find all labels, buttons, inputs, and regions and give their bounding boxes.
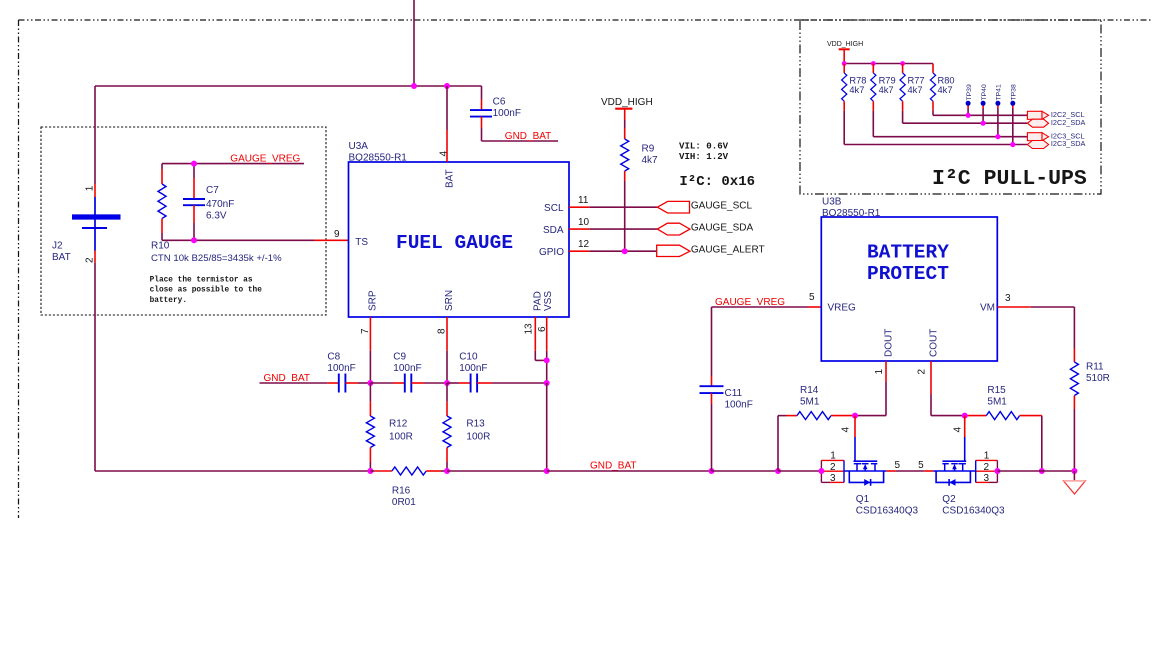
pin number 4	[438, 151, 449, 157]
wire SRP-C9	[370, 382, 404, 384]
junction	[900, 61, 905, 66]
wire rail mid	[447, 470, 547, 472]
junction	[544, 380, 550, 386]
svg-text:100R: 100R	[466, 432, 490, 443]
pin number 13	[524, 323, 535, 335]
junction	[1039, 468, 1045, 474]
wire R12 bottom	[369, 448, 371, 472]
junction	[852, 413, 858, 419]
wire I2C2_SDA row	[903, 111, 1028, 124]
svg-text:5: 5	[918, 460, 924, 471]
svg-text:R80: R80	[938, 75, 955, 85]
junction	[191, 161, 197, 167]
svg-text:C8: C8	[327, 352, 340, 363]
label C6	[493, 97, 521, 120]
svg-text:GND_BAT: GND_BAT	[505, 131, 552, 142]
pin name GPIO	[539, 247, 564, 258]
resistor R15	[986, 412, 1019, 420]
label C7	[206, 185, 234, 222]
pin name BAT	[445, 169, 456, 188]
wire C7 top stub	[193, 164, 195, 199]
label R78	[849, 75, 866, 95]
svg-text:VREG: VREG	[828, 303, 857, 314]
svg-text:C7: C7	[206, 185, 219, 196]
wire top horizontal	[95, 85, 482, 87]
svg-text:TP40: TP40	[981, 84, 988, 100]
net label GAUGE_VREG right	[715, 297, 785, 308]
label C9	[393, 352, 421, 375]
op-amp U3A box	[349, 162, 570, 317]
svg-text:TP38: TP38	[1011, 84, 1018, 100]
svg-text:FUEL GAUGE: FUEL GAUGE	[396, 232, 513, 254]
svg-text:R79: R79	[879, 75, 896, 85]
wire COUT	[931, 361, 965, 416]
svg-text:SCL: SCL	[544, 203, 564, 214]
svg-text:SRN: SRN	[444, 290, 455, 311]
wire GPIO	[569, 250, 657, 252]
pin name SRN	[444, 290, 455, 311]
svg-text:I²C: 0x16: I²C: 0x16	[679, 174, 755, 190]
net label GND_BAT mid	[264, 373, 311, 384]
svg-text:1: 1	[984, 451, 990, 462]
port I2C3_SDA	[1027, 139, 1085, 148]
pin number 4 Q2	[953, 427, 964, 433]
svg-text:2: 2	[830, 462, 836, 473]
wire R10 bottom	[161, 219, 163, 241]
wire Q2 drain	[924, 470, 933, 472]
svg-text:VM: VM	[980, 303, 995, 314]
svg-text:4k7: 4k7	[938, 85, 953, 95]
pin name SCL	[544, 203, 564, 214]
pin box Q2	[976, 451, 998, 485]
ground	[1064, 471, 1086, 494]
capacitor C7	[183, 199, 205, 205]
svg-text:R77: R77	[908, 75, 925, 85]
junction	[775, 468, 781, 474]
testpoint TP39	[966, 84, 973, 115]
pin name DOUT	[884, 329, 895, 357]
label R14	[800, 385, 820, 408]
resistor R77	[900, 73, 905, 101]
pin number 4 Q1	[841, 427, 852, 433]
wire C6 bottom	[482, 117, 559, 141]
svg-text:VSS: VSS	[543, 291, 554, 311]
capacitor C9	[405, 374, 412, 393]
svg-text:BAT: BAT	[52, 252, 71, 263]
svg-text:2: 2	[984, 462, 990, 473]
svg-text:6: 6	[537, 326, 548, 332]
svg-text:I2C2_SDA: I2C2_SDA	[1051, 118, 1086, 127]
svg-text:TP39: TP39	[966, 84, 973, 100]
battery section dashed box	[41, 127, 326, 315]
wire C9-SRN	[411, 382, 447, 384]
svg-text:5: 5	[809, 292, 815, 303]
wire SRN pin	[446, 317, 448, 383]
label R9	[642, 144, 659, 167]
svg-text:TP41: TP41	[996, 84, 1003, 100]
wire R77 top	[902, 64, 904, 73]
wire C10-VSS	[477, 382, 547, 384]
wire VM	[997, 306, 1074, 308]
wire R16 right stub	[426, 470, 447, 472]
svg-text:DOUT: DOUT	[884, 329, 895, 357]
wire R12 top	[369, 383, 371, 416]
capacitor C6	[470, 110, 492, 117]
svg-text:C10: C10	[459, 352, 478, 363]
svg-text:COUT: COUT	[929, 329, 940, 357]
wire VSS down	[546, 383, 548, 471]
wire SDA	[569, 228, 657, 230]
svg-text:PROTECT: PROTECT	[867, 263, 949, 285]
pin number 1	[874, 369, 885, 375]
svg-text:4k7: 4k7	[642, 155, 659, 166]
net label GAUGE_VREG	[230, 153, 300, 164]
wire C11 top	[711, 307, 713, 386]
wire R9 bottom	[624, 171, 626, 251]
wire R14 left	[778, 416, 797, 471]
label R11	[1086, 362, 1110, 385]
svg-text:R15: R15	[987, 385, 1006, 396]
wire battery top	[94, 86, 96, 197]
svg-text:R78: R78	[849, 75, 866, 85]
wire C8-SRP	[345, 382, 370, 384]
resistor R10	[158, 184, 166, 219]
pin name PAD	[533, 291, 544, 311]
wire top vertical	[413, 0, 415, 86]
svg-text:10: 10	[578, 217, 590, 228]
svg-text:4k7: 4k7	[879, 85, 894, 95]
wire R13 top	[446, 383, 448, 416]
wire Q2 gate stub	[964, 416, 966, 437]
wire C11 bottom	[711, 393, 713, 471]
wire I2C3_SDA row	[844, 111, 1027, 145]
title I2C PULL-UPS	[932, 167, 1087, 191]
pin name COUT	[929, 329, 940, 357]
svg-text:VIL: 0.6V: VIL: 0.6V	[679, 141, 729, 152]
pin number 5 Q1	[895, 460, 901, 471]
wire rail right	[997, 470, 1074, 472]
svg-text:J2: J2	[52, 241, 63, 252]
svg-text:510R: 510R	[1086, 373, 1110, 384]
label Q1	[856, 494, 919, 517]
svg-text:GAUGE_SDA: GAUGE_SDA	[691, 223, 754, 234]
wire I2C bus	[844, 63, 933, 65]
wire I2C2_SCL row	[933, 111, 1027, 116]
resistor R14	[797, 412, 831, 420]
label R12	[389, 419, 413, 443]
svg-text:U3B: U3B	[822, 197, 842, 208]
svg-text:R10: R10	[151, 241, 170, 252]
svg-text:2: 2	[85, 257, 96, 263]
svg-text:13: 13	[524, 323, 535, 335]
svg-text:7: 7	[360, 328, 371, 334]
svg-text:100nF: 100nF	[493, 108, 521, 119]
svg-text:C6: C6	[493, 97, 506, 108]
wire R15 right	[1020, 416, 1042, 471]
wire VSS pin	[546, 317, 548, 383]
wire R78 top	[843, 64, 845, 73]
wire I2C3_SCL row	[873, 111, 1027, 137]
label R15	[987, 385, 1007, 408]
pin name VREG	[828, 303, 857, 314]
note VIL VIH	[679, 141, 729, 163]
note I2C address	[679, 174, 755, 190]
svg-text:1: 1	[874, 369, 885, 375]
svg-text:5M1: 5M1	[987, 397, 1007, 408]
svg-text:5M1: 5M1	[800, 397, 820, 408]
pin number 8	[437, 328, 448, 334]
svg-text:0R01: 0R01	[392, 497, 416, 508]
wire PAD pin	[535, 317, 546, 360]
svg-text:BATTERY: BATTERY	[867, 242, 949, 264]
label C11	[725, 388, 753, 411]
svg-text:close as possible to the: close as possible to the	[150, 287, 263, 295]
junction	[818, 468, 824, 474]
wire R79 top	[872, 64, 874, 73]
svg-text:R14: R14	[800, 385, 819, 396]
svg-text:SRP: SRP	[368, 290, 379, 311]
testpoint TP38	[1010, 84, 1017, 144]
svg-text:2: 2	[916, 369, 927, 375]
port I2C2_SDA	[1027, 118, 1085, 127]
power VDD_HIGH I2C	[827, 41, 863, 63]
svg-text:GPIO: GPIO	[539, 247, 564, 258]
pin name SDA	[543, 225, 564, 236]
wire R80 bottom stub	[932, 101, 934, 110]
junction	[367, 468, 373, 474]
pin name SRP	[368, 290, 379, 311]
junction	[411, 83, 417, 89]
wire R80 top	[932, 64, 934, 73]
pin number 12	[578, 239, 590, 250]
svg-text:CSD16340Q3: CSD16340Q3	[942, 506, 1005, 517]
wire SCL	[569, 206, 657, 208]
svg-text:I2C3_SDA: I2C3_SDA	[1051, 139, 1086, 148]
svg-text:CSD16340Q3: CSD16340Q3	[856, 506, 919, 517]
svg-text:6.3V: 6.3V	[206, 211, 227, 222]
svg-text:Q1: Q1	[856, 494, 870, 505]
page border left	[18, 20, 20, 518]
pin number 6	[537, 326, 548, 332]
junction	[367, 380, 373, 386]
svg-text:R12: R12	[389, 419, 408, 430]
port I2C2_SCL	[1027, 110, 1084, 119]
power VDD_HIGH	[601, 97, 653, 120]
I2C pull-ups dashed box	[800, 20, 1101, 194]
resistor R80	[930, 73, 935, 101]
pin number 5 Q2	[918, 460, 924, 471]
battery pin 2	[85, 257, 96, 263]
svg-text:TS: TS	[355, 237, 368, 248]
svg-text:CTN 10k B25/85=3435k +/-1%: CTN 10k B25/85=3435k +/-1%	[151, 253, 282, 264]
testpoint TP41	[995, 84, 1002, 137]
junction	[1010, 142, 1015, 147]
wire Q1 gate stub	[854, 416, 856, 437]
wire R11 top	[1073, 307, 1075, 362]
battery J2	[72, 197, 121, 251]
wire R9 top	[624, 120, 626, 139]
junction	[871, 61, 876, 66]
port GAUGE_ALERT	[657, 245, 765, 257]
svg-text:BAT: BAT	[445, 169, 456, 188]
pin name TS	[355, 237, 368, 248]
svg-text:BQ28550-R1: BQ28550-R1	[822, 208, 881, 219]
label C8	[327, 352, 355, 375]
svg-text:VDD_HIGH: VDD_HIGH	[601, 97, 653, 108]
title FUEL GAUGE	[396, 232, 513, 254]
wire rail left	[95, 470, 370, 472]
net label GND_BAT top	[505, 131, 552, 142]
junction	[622, 248, 628, 254]
resistor R16	[392, 467, 426, 475]
svg-text:C11: C11	[725, 388, 743, 399]
svg-text:C9: C9	[393, 352, 406, 363]
label R77	[908, 75, 925, 95]
junction	[966, 113, 971, 118]
svg-text:12: 12	[578, 239, 590, 250]
pin number 2	[916, 369, 927, 375]
pin number 9	[334, 229, 340, 240]
wire caps row	[260, 382, 339, 384]
svg-text:100nF: 100nF	[725, 400, 753, 411]
wire SRN-C10	[447, 382, 471, 384]
svg-text:5: 5	[895, 460, 901, 471]
junction	[962, 413, 968, 419]
svg-text:BQ28550-R1: BQ28550-R1	[349, 153, 408, 164]
svg-text:GAUGE_VREG: GAUGE_VREG	[230, 153, 300, 164]
pin number 10	[578, 217, 590, 228]
svg-text:SDA: SDA	[543, 225, 564, 236]
svg-text:GAUGE_ALERT: GAUGE_ALERT	[691, 245, 765, 256]
pin number 11	[578, 195, 589, 206]
svg-text:U3A: U3A	[349, 141, 369, 152]
op-amp U3B box	[821, 217, 997, 361]
svg-text:470nF: 470nF	[206, 199, 234, 210]
resistor R12	[366, 416, 374, 448]
note thermistor	[150, 276, 263, 305]
svg-text:3: 3	[830, 473, 836, 484]
svg-text:4: 4	[953, 427, 964, 433]
wire R13 bottom	[446, 448, 448, 472]
label R80	[938, 75, 955, 95]
svg-text:100R: 100R	[389, 432, 413, 443]
net label GND_BAT rail	[590, 461, 637, 472]
label Q2	[942, 494, 1005, 517]
svg-text:PAD: PAD	[533, 291, 544, 311]
label R16	[392, 486, 416, 509]
wire battery bottom	[94, 251, 96, 472]
wire GAUGE_VREG left	[162, 163, 304, 165]
svg-text:4k7: 4k7	[908, 85, 923, 95]
pin number 5	[809, 292, 815, 303]
svg-text:I²C PULL-UPS: I²C PULL-UPS	[932, 167, 1087, 191]
junction	[981, 121, 986, 126]
wire Q1 drain	[886, 470, 924, 472]
svg-text:Place the termistor as: Place the termistor as	[150, 276, 253, 284]
label U3B	[822, 197, 881, 219]
junction	[709, 468, 715, 474]
svg-text:R13: R13	[466, 419, 485, 430]
svg-text:3: 3	[1005, 293, 1011, 304]
label R13	[466, 419, 490, 443]
svg-text:VIH: 1.2V: VIH: 1.2V	[679, 151, 729, 162]
junction	[444, 83, 450, 89]
wire C7 bottom stub	[193, 205, 195, 240]
capacitor C8	[339, 374, 346, 393]
wire DOUT	[855, 361, 886, 416]
wire rail mid2	[547, 470, 712, 472]
svg-text:9: 9	[334, 229, 340, 240]
wire TS	[162, 239, 349, 241]
resistor R78	[842, 73, 847, 101]
label U3A	[349, 141, 408, 164]
svg-text:4: 4	[841, 427, 852, 433]
resistor R11	[1070, 362, 1078, 396]
label C10	[459, 352, 487, 375]
resistor R79	[871, 73, 876, 101]
wire SRP pin	[369, 317, 371, 383]
junction	[544, 468, 550, 474]
title BATTERY PROTECT	[867, 242, 949, 285]
svg-text:100nF: 100nF	[459, 363, 487, 374]
pin number 3	[1005, 293, 1011, 304]
junction	[444, 468, 450, 474]
svg-text:R11: R11	[1086, 362, 1104, 373]
battery pin 1	[85, 185, 96, 191]
resistor R9	[621, 139, 629, 171]
svg-text:3: 3	[984, 473, 990, 484]
svg-text:4k7: 4k7	[849, 85, 864, 95]
wire rail mid3	[712, 470, 779, 472]
page border top	[19, 19, 1152, 21]
junction	[544, 357, 550, 363]
svg-text:1: 1	[830, 451, 836, 462]
capacitor C11	[700, 386, 724, 393]
svg-text:GND_BAT: GND_BAT	[590, 461, 637, 472]
svg-text:battery.: battery.	[150, 297, 187, 305]
pin box Q1	[821, 451, 844, 485]
junction	[191, 237, 197, 243]
wire BAT pin	[446, 86, 448, 162]
junction	[444, 380, 450, 386]
port GAUGE_SDA	[657, 223, 753, 235]
pin name VSS	[543, 291, 554, 311]
testpoint TP40	[981, 84, 988, 123]
junction	[995, 134, 1000, 139]
label R79	[879, 75, 896, 95]
junction	[994, 468, 1000, 474]
svg-text:VDD_HIGH: VDD_HIGH	[827, 41, 863, 48]
label R10	[151, 241, 282, 264]
wire R10 top	[161, 164, 163, 184]
wire C6 top	[481, 86, 483, 110]
wire R78 bottom stub	[843, 101, 845, 110]
port GAUGE_SCL	[657, 201, 752, 213]
wire R11 bottom	[1073, 396, 1075, 472]
svg-text:100nF: 100nF	[393, 363, 421, 374]
svg-text:GAUGE_VREG: GAUGE_VREG	[715, 297, 785, 308]
wire R16 left stub	[370, 470, 392, 472]
wire R14 right	[831, 415, 855, 417]
svg-text:1: 1	[85, 185, 96, 191]
svg-text:8: 8	[437, 328, 448, 334]
wire R79 bottom stub	[872, 101, 874, 110]
svg-text:R16: R16	[392, 486, 411, 497]
port I2C3_SCL	[1027, 131, 1084, 140]
svg-text:11: 11	[578, 195, 589, 206]
transistor Q1	[844, 437, 886, 486]
junction	[842, 61, 847, 66]
